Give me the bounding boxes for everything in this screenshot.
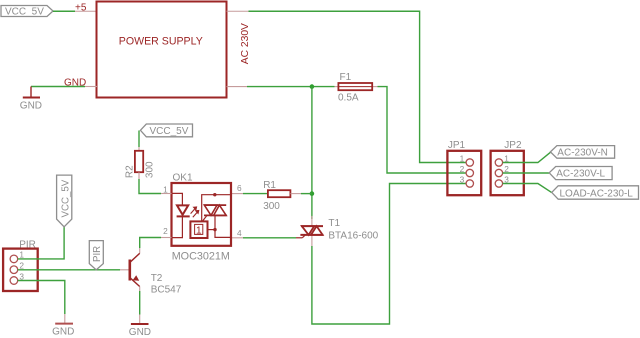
pin AC top of power supply [227, 10, 249, 12]
wire OK1 pin6 to R1 [243, 193, 268, 195]
triac T1 BTA16-600 [296, 218, 379, 241]
svg-text:VCC_5V: VCC_5V [150, 126, 189, 137]
pin +5 of power supply [75, 10, 97, 12]
svg-text:4: 4 [237, 228, 242, 238]
supply flag VCC_5V (top left) [1, 6, 53, 18]
svg-text:R2: R2 [124, 165, 135, 178]
pin 4 of OK1 [231, 237, 243, 239]
svg-text:3: 3 [460, 174, 465, 184]
wire emitter to GND [139, 291, 141, 315]
wire +5 net [53, 10, 75, 12]
OK1 internal triac [202, 193, 231, 237]
wire JP2 pin3 to LOAD-AC-230-L [503, 184, 552, 193]
connector JP1 [447, 140, 481, 195]
pin 2 of OK1 [161, 237, 172, 239]
svg-text:T2: T2 [151, 273, 163, 284]
wire R1 to junction [301, 193, 312, 195]
wire AC-N to JP1 pin1 [249, 11, 467, 162]
wire JP2 pin2 to AC-230V-L [503, 172, 550, 174]
wire R2 to OK1 pin1 [139, 179, 161, 194]
svg-text:2: 2 [163, 226, 168, 236]
svg-text:BC547: BC547 [151, 285, 182, 296]
svg-text:1: 1 [196, 226, 202, 237]
junction at R1 [310, 191, 315, 196]
pin MT1 of T1 [311, 235, 313, 246]
wire triac MT2 net (x=311.9) [311, 87, 313, 219]
svg-text:JP1: JP1 [448, 140, 466, 151]
svg-text:300: 300 [263, 201, 280, 212]
pin 6 of OK1 [231, 193, 243, 195]
wire JP2 pin1 to AC-230V-N [503, 152, 551, 162]
svg-text:LOAD-AC-230-L: LOAD-AC-230-L [560, 188, 634, 199]
svg-text:OK1: OK1 [173, 172, 193, 183]
ground symbol GND (top left) [20, 87, 42, 112]
svg-text:0.5A: 0.5A [338, 92, 359, 103]
wire PIR pin1 to VCC flag [18, 227, 64, 259]
wire PIR pin2 to T2 base [18, 269, 120, 271]
wire OK1 pin2 to T2 collector [140, 238, 161, 249]
wire to GND [31, 86, 85, 88]
resistor R1 300 [263, 180, 301, 212]
pin GND of power supply [85, 86, 97, 88]
svg-text:6: 6 [237, 183, 242, 193]
svg-text:AC-230V-N: AC-230V-N [557, 148, 608, 159]
connector PIR [3, 239, 38, 291]
svg-text:1: 1 [163, 184, 168, 194]
wire PIR pin3 to GND [18, 281, 65, 315]
svg-text:POWER SUPPLY: POWER SUPPLY [119, 36, 203, 48]
ground symbol GND (under T2) [129, 324, 151, 338]
resistor R2 300 [124, 131, 155, 180]
svg-text:BTA16-600: BTA16-600 [328, 230, 378, 241]
svg-text:VCC_5V: VCC_5V [5, 7, 44, 18]
svg-text:GND: GND [52, 326, 74, 337]
pin of GND symbol [139, 315, 141, 324]
OK1 internal LED [172, 193, 190, 237]
label flag AC-230V-L [549, 167, 612, 180]
pin MT2 of T1 [311, 216, 313, 226]
supply flag VCC_5V (middle, at R2) [140, 124, 192, 137]
svg-text:2: 2 [460, 164, 465, 174]
svg-text:R1: R1 [263, 180, 276, 191]
pin collector of T2 [139, 248, 141, 253]
label flag PIR (vertical) [89, 241, 103, 270]
pin base of T2 [120, 269, 129, 271]
svg-text:PIR: PIR [92, 246, 103, 262]
fuse F1 0.5A [335, 72, 378, 103]
wire MT1 to JP1 pin3 [312, 184, 466, 325]
wire AC-L to fuse [247, 86, 335, 88]
svg-text:VCC_5V: VCC_5V [61, 179, 72, 217]
power supply U1 box [64, 2, 251, 98]
wire fuse to JP1 pin2 [378, 87, 467, 173]
junction on AC-L [310, 84, 315, 89]
svg-text:GND: GND [129, 327, 151, 338]
pin of GND symbol [64, 314, 66, 323]
pin 1 of OK1 [161, 193, 172, 195]
svg-text:300: 300 [145, 161, 156, 178]
svg-text:+5: +5 [75, 3, 87, 14]
svg-text:JP2: JP2 [504, 140, 522, 151]
OK1 photon arrows [191, 207, 199, 217]
svg-text:2: 2 [19, 261, 24, 271]
svg-text:MOC3021M: MOC3021M [172, 251, 230, 263]
OK1 gate box "1" [190, 221, 207, 238]
ground symbol GND (under PIR) [52, 324, 74, 338]
svg-text:AC 230V: AC 230V [240, 23, 251, 64]
supply flag VCC_5V (vertical) [57, 175, 72, 227]
svg-text:AC-230V-L: AC-230V-L [556, 169, 605, 180]
svg-text:F1: F1 [340, 72, 352, 83]
pin emitter of T2 [139, 287, 141, 292]
label flag AC-230V-N [550, 146, 614, 159]
wire OK1 pin4 to T1 gate [243, 237, 296, 239]
transistor T2 BC547 [130, 253, 182, 295]
pin AC bottom of power supply [227, 86, 248, 88]
optocoupler OK1 MOC3021M [163, 172, 242, 262]
label flag LOAD-AC-230-L [552, 186, 639, 200]
svg-text:GND: GND [20, 100, 42, 111]
svg-text:T1: T1 [328, 218, 340, 229]
connector JP2 [491, 140, 524, 195]
svg-text:1: 1 [460, 153, 465, 163]
